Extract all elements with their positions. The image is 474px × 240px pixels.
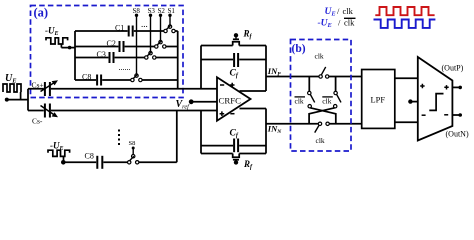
upper input row wire (Cs+ row) — [28, 88, 217, 90]
switch clkbar (mid-left) — [308, 91, 312, 108]
comparator U2 — [418, 57, 453, 141]
clock waveform clkbar (blue) — [374, 20, 436, 28]
LPF block — [362, 70, 395, 129]
wire chopper cross verticals (top) — [309, 77, 335, 92]
wire output OutP — [452, 86, 459, 88]
svg-text:(OutP): (OutP) — [442, 64, 464, 73]
wire S8 to right bus — [142, 79, 178, 81]
svg-text:CRFC: CRFC — [219, 97, 242, 106]
svg-text:/: / — [337, 6, 340, 16]
svg-text:clk: clk — [343, 6, 354, 16]
wire CRFC bottom output — [240, 108, 267, 110]
wire fork riser — [27, 89, 29, 111]
capacitor C1 row — [75, 30, 128, 32]
node dot -UE top — [68, 46, 72, 50]
wire LPF to comparator (top) — [395, 77, 418, 79]
wire UE to fork riser — [7, 99, 28, 101]
wire C3 to S3 — [115, 57, 145, 59]
wire S1 to right bus — [175, 30, 178, 32]
node INP wire — [266, 76, 362, 78]
svg-text:...: ... — [141, 19, 148, 29]
svg-text:(b): (b) — [292, 43, 306, 55]
hysteresis symbol — [429, 94, 443, 111]
svg-text:S1: S1 — [168, 7, 176, 15]
svg-text:UE: UE — [325, 7, 337, 17]
wire S8 bottom to lower row — [139, 111, 177, 163]
svg-text:LPF: LPF — [371, 95, 386, 105]
switch clk (bottom chopper) — [318, 122, 329, 125]
node dot UE — [5, 98, 9, 102]
svg-text:clk: clk — [316, 136, 325, 145]
wire left bus vertical — [74, 31, 76, 80]
svg-text:Cs+: Cs+ — [32, 81, 44, 90]
svg-text:INN: INN — [267, 123, 282, 135]
svg-text:S8: S8 — [129, 140, 136, 147]
svg-text:Rf: Rf — [243, 28, 253, 40]
svg-text:Cs-: Cs- — [32, 117, 43, 126]
svg-text:-UE: -UE — [318, 18, 333, 29]
wire CRFC top output — [240, 90, 267, 92]
capacitor C1 — [129, 26, 133, 37]
svg-text:S3: S3 — [148, 7, 156, 15]
wire Vref to CRFC — [191, 101, 217, 103]
capacitor C3 — [110, 52, 114, 63]
vertical ellipsis (omitted branches) — [118, 130, 120, 146]
capacitor Cf (lower) — [201, 145, 266, 147]
svg-text:Vref: Vref — [176, 99, 191, 111]
svg-text:C2: C2 — [107, 39, 116, 48]
svg-text:INP: INP — [267, 66, 281, 78]
node INN wire — [266, 123, 362, 125]
svg-text:(OutN): (OutN) — [446, 130, 469, 139]
svg-text:-UE: -UE — [45, 26, 59, 38]
wire -UE bottom to C8 — [63, 161, 96, 163]
svg-text:UE: UE — [5, 73, 17, 85]
capacitor C2 row — [75, 46, 118, 48]
wire C8 to S8 — [102, 79, 131, 81]
upper feedback right edge wire — [265, 46, 267, 92]
op-amp CRFC — [217, 77, 251, 120]
clock waveform clk (red) — [375, 7, 434, 15]
capacitor C3 row — [75, 57, 108, 59]
capacitor C8 (bottom branch) — [97, 156, 102, 169]
node ref dot at comparator — [408, 99, 412, 103]
svg-text:Rf: Rf — [243, 159, 253, 171]
svg-text:clk: clk — [315, 52, 324, 61]
svg-text:C8: C8 — [85, 152, 94, 161]
wire chopper cross X — [310, 108, 336, 124]
capacitor Cf (upper) — [201, 59, 266, 61]
sense capacitor Cs- — [45, 104, 50, 118]
lower input row wire (Cs- row) — [28, 110, 217, 112]
box (b) dashed border — [291, 40, 352, 152]
capacitor C2 — [120, 41, 124, 52]
svg-text:......: ...... — [119, 63, 131, 72]
wire C2 to S2 — [125, 46, 155, 48]
svg-text:Cf: Cf — [230, 129, 239, 140]
sense capacitor Cs+ — [45, 82, 50, 96]
wire -UE to left bus — [70, 47, 75, 49]
resistor Rf (lower pseudo-resistor) — [201, 154, 266, 158]
wire LPF to comparator (bottom) — [395, 121, 418, 123]
svg-text:C1: C1 — [115, 24, 124, 33]
svg-text:C3: C3 — [97, 50, 106, 59]
svg-text:S8: S8 — [133, 7, 141, 15]
lower feedback left edge wire — [200, 111, 202, 154]
node dot -UE bottom — [61, 160, 66, 165]
svg-text:/: / — [338, 17, 341, 27]
wire C1 to S1 — [134, 30, 164, 32]
svg-text:Cf: Cf — [230, 69, 239, 80]
wire S2 to right bus — [166, 46, 178, 48]
svg-text:C8: C8 — [82, 73, 91, 82]
source -UE (top, inside box a) — [46, 38, 70, 48]
svg-text:S2: S2 — [158, 7, 166, 15]
capacitor C8 — [97, 75, 101, 86]
wire S3 to right bus — [156, 57, 178, 59]
svg-text:clk: clk — [295, 97, 304, 106]
capacitor C8 row — [75, 79, 96, 81]
svg-text:clk: clk — [322, 97, 331, 106]
wire output OutN — [452, 114, 459, 116]
switch clkbar (mid-right) — [334, 91, 338, 108]
box (a) dashed border — [31, 6, 184, 98]
lower feedback right edge wire — [265, 109, 267, 154]
wire right bus down to input row — [177, 31, 179, 89]
upper feedback left edge wire — [200, 46, 202, 89]
resistor Rf (upper pseudo-resistor) — [201, 42, 266, 46]
svg-text:(a): (a) — [34, 6, 49, 20]
wire C8 to S8 (bottom) — [103, 161, 127, 163]
